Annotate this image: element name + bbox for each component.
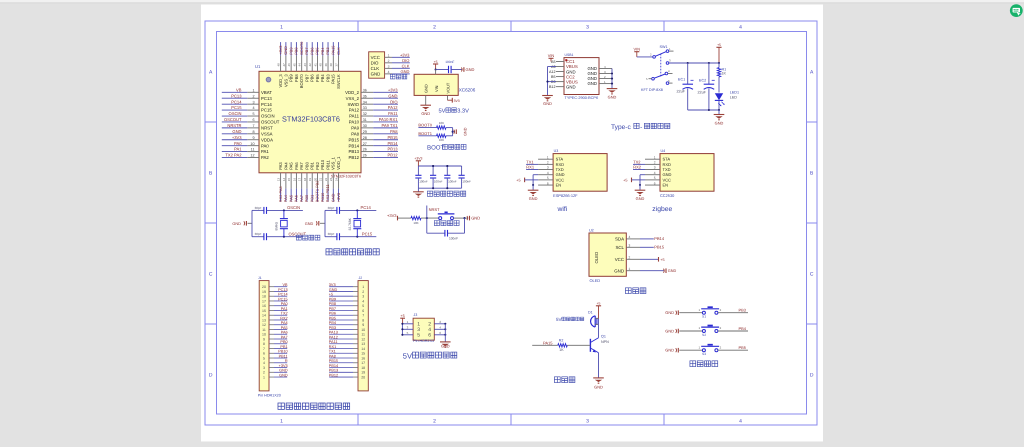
MCU pin 12 PA2 (left)	[222, 153, 270, 161]
svg-text:GND: GND	[441, 343, 450, 348]
emitter wire + ground	[598, 353, 600, 378]
svg-text:2: 2	[654, 161, 656, 165]
MCU pin 2 PC13 (left)	[222, 93, 273, 101]
svg-text:PA1: PA1	[234, 147, 242, 152]
MCU pin 47 VSS_3 (top)	[282, 42, 289, 87]
svg-text:PA12: PA12	[349, 108, 360, 113]
svg-text:J3: J3	[413, 313, 417, 317]
svg-text:GND: GND	[305, 222, 314, 226]
power +5 port (U2)	[640, 258, 659, 260]
svg-text:38: 38	[329, 63, 333, 67]
svg-text:GND: GND	[232, 222, 241, 226]
svg-text:PC15: PC15	[362, 231, 373, 236]
power +5 port (LED rail)	[716, 46, 721, 48]
svg-text:CLK: CLK	[371, 66, 380, 71]
svg-text:SW1: SW1	[660, 45, 668, 49]
svg-text:GND: GND	[331, 193, 336, 202]
GND net port (S1)	[665, 310, 702, 315]
capacitor 100nF (reset)	[444, 230, 446, 237]
ground (USB1 right)	[607, 88, 618, 90]
svg-text:PC14: PC14	[261, 102, 272, 107]
svg-text:5: 5	[263, 356, 265, 360]
svg-text:14: 14	[262, 314, 266, 318]
svg-text:11: 11	[361, 333, 365, 337]
svg-text:PB8: PB8	[294, 74, 299, 82]
header J2 pin 8 PB5	[329, 316, 364, 322]
svg-text:PA4: PA4	[283, 194, 288, 202]
svg-text:PB2: PB2	[315, 161, 320, 169]
wire to junction	[446, 127, 453, 129]
svg-text:30pF: 30pF	[255, 232, 262, 236]
svg-text:VIN: VIN	[634, 47, 641, 52]
wire button to GND port	[454, 217, 469, 219]
MCU pin 26 PB13 (right)	[348, 147, 398, 155]
svg-text:PB3: PB3	[739, 308, 746, 313]
svg-text:PB14: PB14	[329, 364, 338, 368]
header J1 pin 17 PC15	[262, 297, 288, 303]
svg-text:PA7: PA7	[299, 195, 304, 202]
svg-text:4: 4	[739, 419, 742, 425]
svg-text:VIN: VIN	[548, 53, 555, 58]
MCU pin 34 SWIO (right)	[348, 99, 398, 107]
caption chip filter caps	[427, 191, 432, 196]
svg-text:+3V3: +3V3	[387, 213, 397, 218]
svg-text:PB15: PB15	[329, 359, 338, 363]
svg-text:+3V3: +3V3	[336, 193, 341, 202]
svg-text:PB1: PB1	[310, 161, 315, 169]
reset cap loop wires	[426, 218, 428, 233]
caption reset circuit	[434, 220, 439, 225]
svg-text:BOOT1 PB2: BOOT1 PB2	[315, 181, 320, 203]
svg-text:GND: GND	[401, 69, 410, 74]
GND net port (S3)	[665, 348, 702, 353]
MCU pin 23 VSS_1 (bottom)	[329, 156, 336, 202]
header J1 pin 11 PA5	[262, 326, 287, 332]
header J2 body	[358, 281, 368, 391]
svg-text:100nF: 100nF	[448, 180, 457, 184]
J3 pin 6 (right)	[428, 331, 446, 339]
MCU pin 15 PA5 (bottom)	[287, 162, 294, 203]
svg-text:BOOT0: BOOT0	[299, 74, 304, 89]
svg-text:1: 1	[280, 419, 283, 425]
capacitor 100nF filter 1	[415, 166, 428, 188]
push button S1	[699, 307, 722, 318]
svg-text:NPN: NPN	[601, 340, 609, 344]
svg-text:GND: GND	[543, 101, 552, 106]
GND net port (U2)	[640, 270, 665, 272]
J3 left bus wire	[401, 324, 403, 335]
svg-text:DIO: DIO	[371, 60, 379, 65]
svg-text:13: 13	[277, 178, 281, 182]
svg-text:2: 2	[263, 371, 265, 375]
svg-text:PA11: PA11	[349, 114, 359, 119]
header J1 pin 1 GND	[263, 373, 288, 379]
svg-text:PA10: PA10	[349, 120, 360, 125]
svg-text:18: 18	[262, 295, 266, 299]
svg-text:TX2: TX2	[281, 312, 288, 316]
svg-text:12: 12	[361, 337, 365, 341]
svg-text:PA0: PA0	[234, 141, 242, 146]
svg-text:5: 5	[417, 333, 420, 339]
wire cap to GND port	[451, 69, 462, 71]
svg-text:TYPEC-2900-BCP6: TYPEC-2900-BCP6	[565, 96, 599, 100]
wire to GND port	[453, 131, 455, 133]
resistor 10K (BOOT0)	[437, 121, 447, 129]
svg-text:GND: GND	[279, 369, 288, 373]
svg-text:PA6: PA6	[281, 331, 288, 335]
svg-text:100nF: 100nF	[462, 180, 471, 184]
svg-text:22uF: 22uF	[677, 90, 686, 94]
svg-text:PB9: PB9	[329, 297, 336, 301]
svg-text:4: 4	[263, 361, 265, 365]
svg-text:9: 9	[362, 323, 364, 327]
MCU pin 19 PB1 (bottom)	[308, 161, 315, 202]
svg-text:2: 2	[252, 94, 254, 98]
U3 pin 4 GND	[538, 171, 565, 177]
capacitor 30pF top (32k)	[336, 207, 338, 214]
svg-text:10: 10	[361, 328, 365, 332]
svg-text:PB5: PB5	[315, 47, 320, 54]
ground (filter caps)	[417, 188, 419, 192]
USB1 pin B9 VBUS	[551, 79, 578, 84]
capacitor 100nF filter 2	[430, 165, 443, 189]
svg-text:PB8: PB8	[329, 302, 336, 306]
svg-text:3.3V: 3.3V	[457, 109, 469, 115]
USB1 pin A12 GND	[549, 69, 576, 74]
svg-text:Q1: Q1	[601, 335, 606, 339]
net label PB4	[718, 326, 748, 331]
svg-text:TX2 PA2: TX2 PA2	[225, 153, 242, 158]
svg-text:1: 1	[629, 267, 631, 271]
svg-text:10K: 10K	[439, 138, 444, 142]
MCU pin 18 PB0 (bottom)	[303, 161, 310, 202]
svg-text:PB7: PB7	[304, 74, 309, 82]
svg-text:EN: EN	[556, 183, 562, 188]
header J2 pin 20 PB12	[329, 373, 365, 379]
svg-text:39: 39	[324, 63, 328, 67]
LED1 diode	[715, 91, 739, 111]
svg-text:3: 3	[362, 295, 364, 299]
transistor Q1 NPN	[590, 335, 609, 353]
svg-text:PB0: PB0	[304, 194, 309, 202]
svg-text:43: 43	[303, 63, 307, 67]
download header pin 4 GND	[371, 69, 410, 77]
header J2 pin 19 PB13	[329, 369, 365, 375]
header J2 pin 5 PB8	[329, 302, 364, 308]
svg-text:SWCLK: SWCLK	[336, 74, 341, 89]
U2 pin 1 GND	[614, 267, 640, 274]
svg-text:3: 3	[586, 419, 589, 425]
svg-text:VDD_2: VDD_2	[345, 90, 359, 95]
header J2 pin 2 GND	[329, 288, 364, 294]
svg-text:PB4: PB4	[329, 321, 336, 325]
svg-text:100nF: 100nF	[445, 60, 454, 64]
svg-text:PB15: PB15	[348, 137, 359, 142]
svg-text:8MHz: 8MHz	[275, 222, 279, 231]
svg-text:PA9: PA9	[351, 125, 359, 130]
svg-text:41: 41	[313, 63, 317, 67]
svg-text:3V3: 3V3	[454, 99, 460, 103]
MCU pin 39 PB3 (top)	[324, 42, 331, 82]
svg-text:24: 24	[334, 178, 338, 182]
junction	[435, 68, 437, 70]
USB1 pin B12 GND	[549, 84, 576, 89]
svg-text:PA2: PA2	[261, 155, 269, 160]
MCU pin 6 OSCOUT (left)	[222, 117, 280, 125]
svg-text:5V: 5V	[403, 352, 412, 361]
GND net port (reg input)	[463, 67, 465, 72]
svg-text:Pin HDR1X20: Pin HDR1X20	[258, 394, 281, 398]
svg-text:PC14: PC14	[361, 205, 372, 210]
svg-text:6: 6	[428, 333, 431, 339]
svg-text:22: 22	[324, 178, 328, 182]
net label TX1	[526, 163, 538, 165]
svg-text:3: 3	[547, 166, 549, 170]
svg-text:CLK: CLK	[402, 63, 410, 68]
capacitor EC2 22uF	[698, 63, 715, 110]
svg-text:+5: +5	[329, 293, 333, 297]
svg-text:PA1: PA1	[261, 149, 269, 154]
svg-text:PB3: PB3	[325, 47, 330, 54]
svg-text:DIO: DIO	[402, 58, 409, 63]
caption MCU minimal system	[326, 249, 332, 255]
svg-text:S1: S1	[702, 315, 706, 319]
svg-text:PB11: PB11	[279, 354, 288, 358]
USB1 shield pin 4	[587, 65, 612, 71]
header J1 pin 4 R	[263, 359, 288, 365]
crystal 32k rail wires	[324, 210, 326, 236]
svg-text:PC14: PC14	[278, 293, 288, 297]
svg-text:B12: B12	[549, 85, 556, 89]
svg-text:PA7: PA7	[299, 162, 304, 170]
svg-text:PB6: PB6	[309, 47, 314, 54]
top toolbar strip	[0, 0, 1024, 2]
svg-text:Type-c: Type-c	[611, 124, 631, 131]
capacitor 30pF top (8MHz)	[263, 207, 265, 214]
wires caps to crystal (32k)	[340, 209, 377, 211]
svg-text:PC13: PC13	[261, 96, 272, 101]
svg-text:1: 1	[362, 285, 364, 289]
ground (USB1 left)	[542, 95, 553, 97]
svg-text:-: -	[640, 124, 642, 131]
svg-text:OLED: OLED	[590, 278, 601, 283]
net label PA15 + base wire	[532, 344, 558, 346]
svg-text:13: 13	[361, 342, 365, 346]
svg-text:22uF: 22uF	[698, 91, 707, 95]
svg-text:PC13: PC13	[278, 288, 288, 292]
svg-text:10K: 10K	[413, 221, 418, 225]
capacitor EC1 22uF	[677, 63, 694, 110]
header J2 pin 18 PB14	[329, 364, 365, 370]
MCU pin 40 PB4 (top)	[319, 42, 326, 82]
USB1 pin B5 CC2	[551, 74, 575, 79]
header J1 pin 7 PB1	[263, 345, 288, 351]
svg-text:Pin HDR2X3: Pin HDR2X3	[413, 339, 434, 343]
net label RX1	[526, 169, 538, 171]
svg-text:LED: LED	[730, 96, 738, 100]
wires caps to crystal (8MHz)	[267, 209, 303, 211]
svg-text:U3: U3	[554, 149, 559, 153]
MCU pin 20 PB2 (bottom)	[313, 161, 320, 202]
svg-text:16: 16	[361, 356, 365, 360]
svg-text:16: 16	[292, 178, 296, 182]
svg-text:PA4: PA4	[281, 321, 288, 325]
U4 pin 6 EN	[645, 181, 668, 187]
download header P1 body	[369, 52, 385, 78]
crystal 8MHz rail wires	[251, 210, 253, 236]
joining wire vertical	[452, 128, 454, 136]
svg-text:PB0: PB0	[304, 161, 309, 169]
svg-text:BOOT: BOOT	[427, 145, 445, 152]
U3 pin 1 STA	[538, 155, 563, 161]
svg-text:18: 18	[303, 178, 307, 182]
svg-text:PA8: PA8	[390, 129, 398, 134]
svg-text:VCC: VCC	[615, 257, 624, 262]
svg-text:32: 32	[363, 112, 367, 116]
header J2 pin 9 PB4	[329, 321, 364, 327]
J3 right bus to ground	[444, 324, 446, 342]
svg-text:3: 3	[586, 25, 589, 31]
header J1 pin 13 RX2	[262, 316, 288, 322]
pin VOUT to 3V3 port	[447, 95, 449, 100]
svg-text:OSCOUT: OSCOUT	[224, 117, 242, 122]
svg-text:EC1: EC1	[678, 78, 685, 82]
power +5 port (regulator)	[433, 63, 438, 65]
MCU pin 11 PA1 (left)	[222, 147, 270, 155]
svg-text:+5: +5	[660, 258, 664, 262]
MCU pin 1 VBAT (left)	[222, 87, 272, 95]
svg-text:19: 19	[308, 178, 312, 182]
svg-text:4: 4	[629, 235, 631, 239]
svg-text:GND: GND	[279, 373, 288, 377]
svg-text:PB10: PB10	[320, 192, 325, 202]
svg-text:PA12: PA12	[329, 335, 338, 339]
svg-text:VOUT: VOUT	[445, 82, 450, 93]
net label TX2	[633, 163, 645, 165]
MCU pin 25 PB12 (right)	[348, 153, 398, 161]
power rail wire	[688, 62, 719, 64]
svg-text:7: 7	[263, 347, 265, 351]
svg-text:GND: GND	[715, 120, 724, 125]
svg-text:C: C	[810, 272, 814, 278]
net label PB5	[718, 345, 748, 350]
svg-text:5: 5	[252, 112, 254, 116]
svg-text:PA10 RX1: PA10 RX1	[379, 117, 399, 122]
svg-text:PB9: PB9	[289, 74, 294, 82]
U4 pin 2 RXD	[645, 161, 671, 167]
connector USB1 body	[564, 58, 599, 95]
svg-text:1: 1	[280, 25, 283, 31]
MCU pin 38 PA15 (top)	[329, 42, 336, 84]
svg-text:3: 3	[654, 166, 656, 170]
svg-text:5: 5	[362, 304, 364, 308]
pin-1 marker dot	[266, 77, 271, 82]
svg-text:8: 8	[362, 318, 364, 322]
svg-text:VIN: VIN	[434, 85, 439, 92]
svg-text:PB4: PB4	[739, 326, 747, 331]
svg-text:4: 4	[654, 171, 656, 175]
module U4 body	[660, 154, 714, 192]
svg-text:15: 15	[361, 352, 365, 356]
MCU pin 13 PA3 (bottom)	[277, 162, 284, 203]
header J1 pin 20 VB	[262, 283, 288, 289]
svg-text:28: 28	[363, 136, 367, 140]
MCU pin 3 PC14 (left)	[222, 99, 273, 107]
svg-text:12: 12	[250, 154, 254, 158]
svg-text:RX1: RX1	[329, 345, 336, 349]
capacitor 100nF filter 4	[459, 166, 472, 188]
U2 pin 3 SCL	[615, 243, 640, 250]
svg-text:S2: S2	[702, 333, 706, 337]
svg-text:9: 9	[263, 337, 265, 341]
svg-text:GND: GND	[668, 269, 677, 273]
svg-text:5V: 5V	[439, 109, 446, 115]
svg-text:OSCIN: OSCIN	[261, 114, 275, 119]
MCU pin 32 PA11 (right)	[349, 111, 398, 119]
svg-text:PA5: PA5	[281, 326, 288, 330]
svg-text:PB13: PB13	[387, 147, 398, 152]
svg-text:1: 1	[388, 53, 390, 57]
svg-text:B5: B5	[551, 75, 556, 79]
resistor 10K (BOOT1)	[437, 134, 447, 142]
svg-text:20: 20	[361, 375, 365, 379]
header J1 pin 9 PA7	[263, 335, 288, 341]
display U2 OLED body	[589, 233, 626, 276]
svg-text:GND: GND	[665, 328, 674, 333]
svg-text:100nF: 100nF	[419, 180, 428, 184]
svg-text:3: 3	[629, 243, 631, 247]
svg-text:PB7: PB7	[304, 47, 309, 54]
svg-text:21: 21	[319, 178, 323, 182]
svg-text:1K: 1K	[722, 72, 727, 76]
svg-text:PC15: PC15	[261, 108, 272, 113]
ground (power section)	[718, 110, 720, 115]
svg-text:35: 35	[363, 94, 367, 98]
svg-text:PA15: PA15	[543, 340, 553, 345]
MCU pin 17 PA7 (bottom)	[298, 162, 305, 203]
resistor R 10K (reset)	[411, 216, 421, 219]
svg-text:A12: A12	[549, 70, 556, 74]
svg-text:PB15: PB15	[387, 135, 398, 140]
svg-text:+5: +5	[400, 314, 404, 318]
header J1 body	[259, 281, 269, 391]
svg-text:DIO: DIO	[390, 99, 397, 104]
svg-text:6: 6	[263, 352, 265, 356]
header J1 pin 15 PA1	[262, 307, 288, 313]
svg-text:30: 30	[363, 124, 367, 128]
svg-text:+5: +5	[434, 60, 438, 64]
svg-text:19: 19	[262, 290, 266, 294]
svg-text:6: 6	[252, 118, 254, 122]
svg-text:VDD_1: VDD_1	[336, 156, 341, 170]
svg-text:19: 19	[361, 371, 365, 375]
svg-text:C: C	[209, 272, 213, 278]
svg-text:wifi: wifi	[557, 206, 568, 213]
svg-text:NRSTR: NRSTR	[227, 123, 241, 128]
pin GND wire + ground	[425, 95, 427, 105]
svg-text:PB14: PB14	[348, 143, 359, 148]
MCU pin 27 PB14 (right)	[348, 141, 398, 149]
MCU pin 8 VSSA (left)	[222, 129, 273, 137]
push button S3	[699, 345, 722, 356]
svg-text:EC2: EC2	[699, 79, 706, 83]
svg-text:SCL: SCL	[615, 245, 624, 250]
buzzer D1 body	[588, 310, 599, 327]
module U3 body	[553, 154, 607, 192]
svg-text:2: 2	[362, 290, 364, 294]
svg-text:J2: J2	[359, 276, 363, 280]
wire R2 to base	[567, 344, 590, 346]
